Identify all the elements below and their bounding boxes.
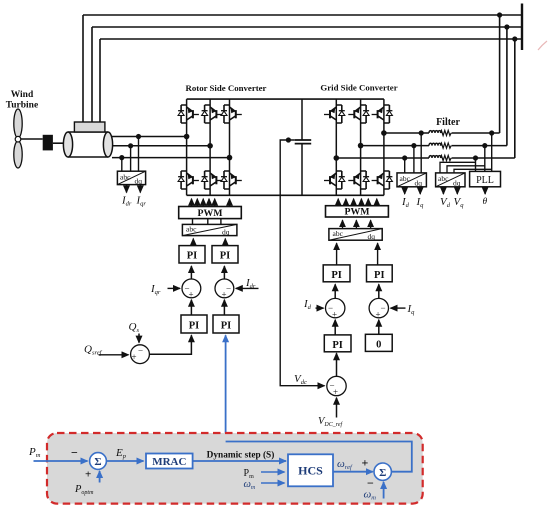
wires abc-dq to PWM RSC	[193, 219, 221, 225]
wire rotor tap c drop	[121, 158, 123, 172]
arrow MRAC to HCS	[193, 460, 286, 462]
svg-text:−: −	[71, 446, 78, 460]
inductor L3	[429, 156, 441, 158]
svg-text:PWM: PWM	[344, 207, 369, 218]
svg-text:Dynamic step (S): Dynamic step (S)	[207, 450, 275, 461]
wire V tap 3 drop	[475, 158, 477, 171]
junction RSC phase b	[207, 143, 213, 149]
arrow sumG1 to PI	[334, 284, 336, 298]
shaft low-speed	[21, 138, 43, 140]
arrow sumG2 to PI	[378, 284, 380, 298]
RSC gate arrows	[192, 199, 230, 207]
turbine blade upper	[14, 109, 22, 138]
arrow Vd out	[442, 187, 444, 194]
wire grid drop phase b	[506, 27, 508, 146]
arrow zero to sumG2	[378, 320, 380, 335]
wire I tap 1 drop	[420, 133, 422, 173]
svg-text:dq: dq	[135, 177, 143, 186]
RSC leg 3	[229, 99, 231, 195]
MRAC block	[146, 454, 193, 469]
grid bar	[521, 4, 523, 51]
arrow Iqr into sum	[168, 287, 181, 289]
arrow sumR1 to PI	[190, 266, 192, 279]
junction bus b	[504, 24, 509, 29]
svg-text:θ: θ	[483, 197, 488, 207]
wire Q sum output	[149, 335, 191, 354]
PI block R3	[181, 315, 207, 333]
IGBT S1	[178, 105, 199, 123]
arrow Vq out	[456, 187, 458, 194]
arrow Qsref into sum	[99, 354, 129, 356]
wire V jog a	[440, 162, 476, 173]
junction GSC phase3 leg	[334, 155, 340, 161]
wire rotor tap a drop	[138, 137, 140, 172]
svg-text:0: 0	[376, 340, 381, 351]
svg-text:Filter: Filter	[436, 117, 460, 128]
junction I tap 3	[402, 155, 407, 160]
RSC leg 2	[209, 99, 211, 195]
shaft high-speed	[53, 142, 65, 144]
svg-text:dq: dq	[222, 228, 230, 237]
svg-text:abc: abc	[400, 174, 411, 183]
PI block G3	[324, 335, 351, 352]
wire Vdc sense run	[280, 140, 324, 386]
arrow Id into sum	[316, 307, 324, 309]
summing junction G1	[326, 298, 345, 319]
arrow Idr out	[126, 185, 128, 193]
wire rotor line c	[112, 157, 230, 159]
resistor R1	[440, 130, 451, 135]
wire V tap 1 drop	[491, 133, 493, 171]
capacitor C plates	[295, 140, 312, 144]
svg-text:abc: abc	[333, 229, 344, 238]
arrow PI1 to transform	[192, 239, 194, 246]
svg-text:Rotor Side Converter: Rotor Side Converter	[186, 83, 267, 93]
wire grid drop phase a	[499, 15, 501, 133]
wire rotor tap b drop	[130, 146, 132, 171]
arrow sumR2 to PI	[223, 266, 225, 279]
DFIG generator body	[63, 132, 112, 157]
inductor L1	[429, 131, 441, 133]
arrow PIg2 to transform	[377, 243, 379, 265]
svg-text:−: −	[381, 303, 386, 313]
wire grid bus line 1	[83, 14, 522, 16]
svg-text:abc: abc	[120, 173, 131, 182]
svg-text:PI: PI	[220, 251, 231, 262]
arrow wm to HCS	[261, 482, 285, 484]
rotor current abc-dq transform	[117, 171, 145, 185]
svg-text:+: +	[376, 309, 381, 319]
svg-text:+: +	[332, 309, 337, 319]
svg-text:PI: PI	[374, 270, 385, 281]
PI block R1	[179, 246, 205, 263]
arrows transform to PWM GSC	[343, 220, 371, 228]
GSC leg 3	[383, 99, 385, 195]
junction Vdc sense	[286, 137, 291, 142]
IGBT S3	[221, 105, 242, 123]
wire rotor line a	[112, 136, 187, 138]
svg-text:abc: abc	[438, 174, 449, 183]
arrow PIg3 to sumG1	[334, 320, 336, 335]
arrow theta out	[484, 187, 486, 194]
PWM block GSC	[326, 206, 389, 218]
svg-text:PI: PI	[221, 321, 232, 332]
arrow PI3 to sumR1	[190, 300, 192, 315]
wire I tap 3 drop	[404, 158, 406, 173]
PI block G2	[367, 265, 393, 282]
svg-text:MRAC: MRAC	[152, 456, 186, 468]
svg-text:+: +	[222, 290, 227, 300]
junction I tap 2	[411, 143, 416, 148]
svg-text:+: +	[333, 387, 338, 397]
svg-text:−: −	[226, 284, 231, 294]
arrow PIg1 to transform	[336, 243, 338, 265]
grid current abc-dq transform	[397, 173, 426, 188]
junction GSC phase1 leg	[381, 130, 387, 136]
PWM block RSC	[179, 207, 242, 220]
IGBT S6	[221, 171, 242, 189]
svg-text:dq: dq	[368, 232, 376, 241]
svg-text:PI: PI	[189, 321, 200, 332]
junction bus a	[497, 12, 502, 17]
junction RSC phase c	[227, 155, 233, 161]
wire stator phase a riser	[82, 15, 84, 122]
GSC leg 2	[360, 99, 362, 195]
DC top rail	[187, 98, 384, 100]
DC bottom rail	[187, 194, 384, 196]
arrow wm into sum2	[383, 482, 385, 499]
arrow Qs into sum	[138, 334, 140, 343]
arrow VDCref into sum	[336, 398, 338, 418]
svg-text:+: +	[85, 469, 91, 481]
arrow Idr into sum	[236, 287, 259, 289]
svg-text:PI: PI	[187, 251, 198, 262]
IGBT G1	[324, 105, 345, 123]
IGBT S2	[202, 105, 223, 123]
PI block R4	[213, 315, 239, 333]
wire grid drop phase c	[514, 39, 516, 158]
DC link wire lower	[301, 144, 303, 196]
arrow Iq into sum	[391, 307, 406, 309]
svg-text:dq: dq	[453, 179, 461, 188]
MRAC dashed region	[47, 433, 423, 504]
wire grid bus line 2	[92, 26, 522, 28]
svg-text:HCS: HCS	[298, 464, 323, 478]
IGBT S4	[178, 171, 199, 189]
summing junction R2	[215, 279, 234, 300]
wire GSC phase 2 (mid)	[361, 145, 507, 147]
svg-text:PLL: PLL	[476, 175, 494, 186]
arrow sum to MRAC	[106, 460, 143, 462]
svg-text:Grid Side Converter: Grid Side Converter	[320, 83, 397, 93]
zero block	[365, 334, 392, 351]
svg-text:+: +	[132, 352, 137, 362]
svg-text:PWM: PWM	[197, 208, 222, 219]
GSC leg 1	[335, 99, 337, 195]
wire grid bus line 3	[100, 38, 522, 40]
arrow Iqr out	[139, 185, 141, 193]
wire V jog b	[447, 166, 485, 173]
arrow Vdc sum to PI	[336, 353, 338, 376]
PI block G1	[323, 265, 350, 282]
summing junction G2	[369, 298, 388, 319]
junction rotor tap c	[119, 155, 124, 160]
svg-text:Σ: Σ	[94, 456, 101, 468]
summing junction R1	[182, 279, 201, 300]
svg-text:Turbine: Turbine	[6, 101, 38, 111]
summing junction Vdc	[327, 376, 346, 397]
wire sum2 feedback loop	[226, 442, 412, 472]
svg-text:PI: PI	[332, 340, 343, 351]
IGBT G2	[348, 105, 369, 123]
junction GSC phase2 leg	[358, 143, 364, 149]
svg-text:−: −	[138, 346, 143, 356]
svg-text:+: +	[189, 290, 194, 300]
dq-abc transform GSC	[329, 229, 382, 241]
RSC leg 1	[186, 99, 188, 195]
arrow PI4 to sumR2	[223, 300, 225, 315]
wire rotor line b	[113, 145, 211, 147]
junction I tap 1	[419, 130, 424, 135]
stray mark	[538, 41, 547, 50]
inductor L2	[429, 143, 441, 145]
wire V jog c	[454, 169, 492, 173]
junction V tap 2	[482, 143, 487, 148]
grid voltage abc-dq transform	[436, 173, 465, 188]
IGBT G4	[324, 171, 345, 189]
arrow Pm to HCS	[261, 471, 285, 473]
summing junction S2	[374, 463, 391, 480]
resistor R2	[440, 143, 451, 148]
stator terminal box	[74, 122, 105, 132]
arrow Pm into sum	[34, 460, 88, 462]
turbine hub	[15, 136, 21, 142]
arrow Id out	[404, 187, 406, 194]
svg-text:abc: abc	[186, 225, 197, 234]
IGBT G5	[348, 171, 369, 189]
dq-abc transform RSC	[182, 224, 237, 236]
svg-text:Wind: Wind	[11, 90, 34, 100]
wire GSC phase 1 (top)	[384, 132, 500, 134]
junction V tap 3	[473, 155, 478, 160]
arrow Iq out	[419, 187, 421, 194]
junction bus c	[512, 36, 517, 41]
PLL block	[470, 171, 501, 186]
junction rotor tap a	[136, 134, 141, 139]
gearbox	[43, 135, 53, 151]
arrow PI2 to transform	[224, 239, 226, 246]
arrow MRAC step (blue riser)	[225, 335, 227, 441]
junction RSC phase a	[184, 134, 190, 140]
arrow Poptm into sum	[99, 471, 101, 483]
svg-text:dq: dq	[415, 179, 423, 188]
IGBT G3	[372, 105, 393, 123]
DC link wire upper	[301, 99, 303, 140]
summing junction S1	[90, 453, 107, 470]
PI block R2	[212, 246, 238, 263]
svg-text:+: +	[362, 456, 369, 470]
turbine blade lower	[14, 141, 22, 168]
IGBT S5	[202, 171, 223, 189]
svg-text:Σ: Σ	[379, 467, 386, 479]
wire I tap 2 drop	[413, 146, 415, 173]
arrow HCS to sum2	[333, 471, 373, 473]
wire GSC phase 3 (bottom)	[336, 157, 515, 159]
wire stator phase c riser	[99, 39, 101, 122]
IGBT G6	[372, 171, 393, 189]
junction V tap 1	[489, 130, 494, 135]
GSC gate arrows	[338, 199, 377, 206]
summing junction Q	[131, 345, 150, 364]
wire stator phase b riser	[91, 27, 93, 122]
svg-text:PI: PI	[331, 270, 342, 281]
HCS block	[288, 454, 333, 486]
wire V tap 2 drop	[484, 146, 486, 172]
junction rotor tap b	[128, 143, 133, 148]
resistor R3	[440, 155, 451, 160]
